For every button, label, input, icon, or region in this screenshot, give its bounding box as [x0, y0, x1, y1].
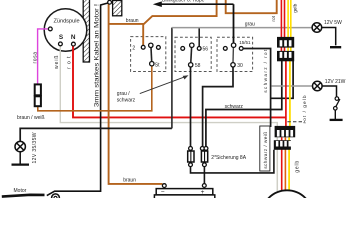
- coil terminal S: [59, 42, 63, 46]
- svg-text:gelb: gelb: [295, 161, 301, 173]
- wire fuse1 bottom to connector C2: [191, 150, 274, 173]
- svg-text:−: −: [161, 189, 165, 196]
- svg-text:3mm starkes Kabel an Motor !: 3mm starkes Kabel an Motor !: [93, 4, 100, 107]
- wire braun ground bus: [109, 4, 163, 184]
- label box schwarz/weiss: [260, 126, 270, 171]
- ignition coil Zündspule body: [44, 9, 87, 52]
- wire 30 down-left to fuse 2: [203, 67, 233, 146]
- svg-text:grau: grau: [245, 22, 255, 28]
- lamp 12V 21W: [313, 81, 323, 91]
- svg-text:Motor: Motor: [14, 188, 27, 194]
- wire 58 down to fuse 1: [190, 67, 192, 146]
- svg-text:15/51: 15/51: [239, 40, 251, 45]
- box2 terminal 56: [197, 47, 201, 51]
- svg-text:2*Sicherung 8A: 2*Sicherung 8A: [211, 155, 246, 161]
- wire rot 2 from top: [284, 0, 286, 51]
- headlight lamp 12V 35/35W: [15, 141, 25, 164]
- wire fuse2 bottom to battery plus: [203, 167, 205, 184]
- svg-text:12V 21W: 12V 21W: [325, 79, 346, 85]
- ground terminal node at engine block: [108, 0, 112, 4]
- wire gelb below block2: [289, 61, 291, 127]
- black jog wire from connector right pin: [271, 61, 294, 99]
- wire rosa (magenta): [38, 29, 48, 84]
- wire braun branch to top right: [109, 0, 217, 24]
- brake switch ground bar: [330, 119, 343, 121]
- battery: [162, 184, 166, 188]
- wire weiss from coil S down and long grey horizontal to connector C1: [60, 46, 277, 127]
- box1 right terminal: [157, 46, 161, 50]
- fuse 1: [188, 151, 194, 162]
- lamp 12V 5W: [312, 23, 322, 33]
- ground bar 12V5W: [330, 46, 341, 48]
- coil terminal N: [72, 42, 76, 46]
- connector block C1: [275, 126, 296, 137]
- svg-text:rot / gelb: rot / gelb: [302, 95, 308, 123]
- wire grau to 12V21W lamp: [271, 85, 312, 87]
- wire 3mm Kabel an Motor (black): [47, 3, 110, 196]
- brake switch: [335, 97, 339, 101]
- svg-text:rot: rot: [271, 15, 277, 21]
- svg-text:56: 56: [203, 47, 209, 53]
- feed wire to box3 from arrow line: [233, 4, 235, 43]
- box1 moving contact: [150, 47, 153, 61]
- switch box 2 (dashed): [175, 37, 211, 71]
- box3 moving contact: [232, 47, 234, 62]
- svg-text:Zündspule: Zündspule: [53, 18, 79, 24]
- feed to terminal 56 from grau line: [198, 28, 200, 46]
- connector block 1 (top): [277, 37, 294, 48]
- chassis ground hatched bar: [83, 0, 89, 62]
- motor spiral: [52, 194, 60, 202]
- wire from 15/51 right and down to magneto (schwarz/rot): [243, 49, 270, 128]
- svg-text:2: 2: [132, 46, 135, 52]
- wire rot to magneto: [281, 137, 283, 190]
- box2 left terminal: [181, 47, 185, 51]
- box3 left terminal: [223, 47, 227, 51]
- wire from lamp to brake switch: [322, 86, 336, 97]
- wire braun branch into box1 terminal: [142, 24, 144, 46]
- dashed leader rot/gelb: [287, 121, 305, 123]
- connector block C2: [274, 140, 291, 150]
- grau wire to 12V5W lamp: [172, 27, 312, 29]
- switch box 1 (dashed): [131, 37, 166, 72]
- svg-text:schwarz: schwarz: [117, 98, 136, 104]
- engine ground hatched block: [113, 1, 122, 16]
- svg-text:N: N: [71, 34, 76, 41]
- connector pair on rosa/braun-weiss wire: [35, 84, 41, 95]
- wire rot below block2: [285, 61, 287, 127]
- wire rot 1 from top: [280, 0, 282, 51]
- box2 terminal 58: [189, 63, 193, 67]
- svg-text:rosa: rosa: [32, 52, 38, 64]
- box3 terminal 15/51: [239, 47, 243, 51]
- fuse terminals top: [189, 147, 193, 151]
- svg-text:braun / weiß: braun / weiß: [17, 115, 45, 121]
- grau/schwarz vertical wire: [171, 28, 173, 129]
- svg-text:30: 30: [237, 63, 243, 69]
- svg-text:12V 5W: 12V 5W: [324, 20, 342, 26]
- box1 pivot terminal: [149, 43, 153, 47]
- arrow to Blinkgeber o. Hupe: [160, 3, 234, 5]
- headlight wire black: [20, 128, 172, 141]
- svg-text:12V 35/35W: 12V 35/35W: [32, 132, 38, 163]
- wire orange to magneto: [284, 137, 286, 190]
- wire lamp to ground: [322, 28, 336, 46]
- svg-text:schwarz: schwarz: [225, 104, 244, 110]
- svg-text:grau /: grau /: [117, 91, 130, 97]
- svg-text:weiß: weiß: [54, 56, 60, 70]
- box3 pivot terminal: [231, 43, 235, 47]
- svg-text:+: +: [201, 189, 205, 196]
- motor outline: [2, 195, 45, 197]
- wire braun/weiss from connector to St terminal: [38, 66, 152, 111]
- svg-text:58: 58: [195, 63, 201, 69]
- fuse terminals bottom: [189, 163, 193, 167]
- coil terminal left: [48, 27, 52, 31]
- svg-text:braun: braun: [126, 18, 139, 24]
- connector block 2: [277, 51, 294, 61]
- svg-text:St: St: [155, 62, 160, 68]
- svg-text:S: S: [59, 34, 64, 41]
- headlight ground bar: [12, 163, 30, 165]
- schwarz wire from fuse 2 up and right to connector column: [206, 61, 282, 147]
- svg-text:gelb: gelb: [293, 3, 299, 12]
- svg-text:braun: braun: [123, 177, 136, 183]
- box2 moving contact: [190, 47, 193, 62]
- svg-text:schwarz / weiß: schwarz / weiß: [263, 132, 269, 169]
- box3 terminal 30: [231, 63, 235, 67]
- wire gelb 2 from top: [290, 0, 292, 51]
- switch box 3 (dashed): [217, 37, 253, 71]
- svg-text:Blinkgeber o. Hupe: Blinkgeber o. Hupe: [162, 0, 205, 4]
- wire gelb to magneto: [288, 137, 290, 190]
- wire rot from coil N, long horizontal: [73, 46, 286, 118]
- magneto flywheel circle: [261, 190, 312, 240]
- box2 pivot terminal: [190, 43, 194, 47]
- fuse 2: [201, 151, 207, 162]
- wire weiß to magneto: [276, 137, 278, 191]
- wire gelb 1 from top: [287, 0, 289, 51]
- wire braun second top loop: [226, 0, 277, 13]
- box1 terminal St: [150, 62, 154, 66]
